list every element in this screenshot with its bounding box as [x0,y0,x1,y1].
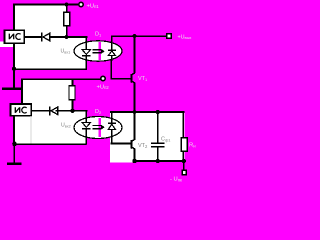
white sliver below IC1 [0,42,13,48]
top output rail [111,35,166,37]
resistor R1 [64,5,70,37]
node: ground2 junction [12,142,17,147]
wire: diode 2 to optocoupler 2 [56,110,88,112]
svg-text:VT1: VT1 [138,76,148,82]
wire: corner into optocoupler 1 LED anode [86,36,88,43]
IC box 2 [11,104,32,116]
wire: VT1 base wire [110,78,130,80]
wire: drop to output terminal [183,161,185,170]
white interior of output rectangle [110,112,185,160]
wire: vertical to IC2 top [21,78,23,104]
wire: IC1 output to diode [24,36,41,38]
wire: ground2 stem [13,144,15,163]
optocoupler U2 ellipse [74,117,122,139]
node: cap junction on bottom rail [156,159,160,163]
transistor VT1 [130,36,135,112]
node: VT2 emitter junction on bottom rail [132,159,136,163]
node: resistor R1 top junction [64,2,68,6]
transistor VT2 [130,112,135,161]
rail B: circuit2 supply wire [21,78,100,80]
svg-text:Uвх2: Uвх2 [61,123,71,129]
IC box 1 [5,30,25,43]
light transfer arrow of U2 [93,125,105,130]
capacitor Cf1 [151,112,164,161]
svg-text:+Uвых: +Uвых [178,34,192,40]
wire: rail corner down into photodiode1 [111,35,113,42]
svg-text:+Uп2: +Uп2 [97,84,110,90]
node: junction of ground 1 [12,67,16,71]
resistor Rn [181,112,187,161]
svg-text:D1: D1 [95,32,102,38]
svg-text:Rн: Rн [189,143,196,149]
optocoupler U2 center gap stripe [99,118,101,137]
diode VD1 [41,33,50,42]
LED of U1 [82,41,91,61]
light transfer arrow of U1 [93,49,105,54]
output rectangle top rail [110,111,185,113]
photodiode of U2 [108,112,116,143]
svg-text:D2: D2 [95,109,102,115]
white interior of circuit-2 lower loop [31,111,87,144]
terminal +Up2 [101,76,105,80]
white pocket left of bottom rail [110,160,134,162]
terminal +Up1 [79,2,83,6]
diode VD2 [49,107,58,116]
wire: left vertical lower part [13,43,15,87]
wire: top supply wire [13,4,78,6]
wire: corner into optocoupler 2 LED anode [86,110,88,120]
svg-text:Uвх1: Uвх1 [61,49,71,55]
wire: VT2 base wire [110,143,130,145]
white interior of circuit-1 lower loop [14,37,87,69]
resistor R2 [69,79,75,111]
node: resistor R1 bottom junction [64,35,68,39]
ground 2 [7,162,22,165]
node: Rn junction on bottom rail [182,159,186,163]
node: VT junction on top rail [132,110,136,114]
photodiode of U1 [108,42,116,61]
wire: photodiode1 stub down to VT1 base [110,60,112,79]
optocoupler U1 ellipse [74,41,122,61]
white interior of top-left loop [14,4,67,37]
faint line below IC2 right edge [31,116,32,144]
svg-text:+Uп1: +Uп1 [87,3,100,9]
svg-text:- Uпк: - Uпк [170,177,182,183]
wire A: LED1 cathode return [13,68,87,70]
white interior of circuit-2 upper loop [22,80,72,112]
optocoupler U1 center gap stripe [99,42,101,60]
wire: IC2 output to diode 2 [31,110,49,112]
wire: IC2 bottom lead [13,116,15,144]
wire: left vertical upper part [13,4,15,31]
terminal +Uvyx [167,34,171,39]
wire: diode to optocoupler input [50,36,88,38]
output rectangle bottom rail [134,160,186,162]
terminal -Upk [182,170,186,174]
LED of U2 [82,118,91,144]
wire: circuit2 bottom return [13,143,87,145]
node: resistor R2 bottom junction [70,109,74,113]
wire: LED1 cathode stub down [86,61,88,70]
node: cap junction on top rail [156,110,160,114]
white channel below IC2 [14,116,31,144]
node: VT1 collector junction [132,34,136,38]
svg-text:VT2: VT2 [138,143,148,149]
svg-text:Cф1: Cф1 [161,137,171,143]
ground 1 [2,88,23,91]
